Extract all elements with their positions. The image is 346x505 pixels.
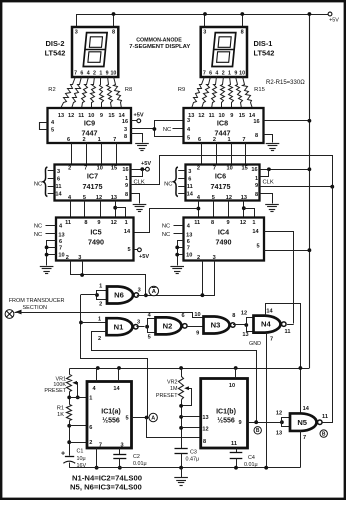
pin label N4 12 bbox=[241, 310, 247, 316]
svg-text:2: 2 bbox=[82, 137, 85, 143]
svg-text:N1-N4=IC2=74LS00: N1-N4=IC2=74LS00 bbox=[72, 474, 142, 483]
label R2 bbox=[48, 87, 55, 93]
IC IC9 7447 bbox=[48, 108, 132, 143]
junction N6 output node bbox=[144, 293, 148, 297]
svg-text:12: 12 bbox=[111, 220, 117, 226]
svg-text:16: 16 bbox=[122, 167, 128, 173]
wire IC8 pin16 to +5V rail bbox=[264, 120, 310, 122]
svg-text:COMMON-ANODE: COMMON-ANODE bbox=[136, 38, 182, 44]
wire N2 output to N3 pin9 bbox=[186, 326, 203, 328]
pin label N6 1 bbox=[99, 284, 102, 290]
pin labels IC1a top bbox=[92, 386, 120, 392]
node A-bar circled bbox=[149, 286, 159, 296]
svg-text:1: 1 bbox=[99, 70, 102, 76]
junction C3/bottom rail bbox=[179, 466, 183, 470]
svg-text:74175: 74175 bbox=[211, 182, 231, 191]
svg-text:+5V: +5V bbox=[139, 254, 149, 260]
svg-text:1: 1 bbox=[252, 220, 255, 226]
svg-text:1: 1 bbox=[125, 176, 128, 182]
wire IC7 pin9 CLK to N5 output net bbox=[131, 156, 333, 187]
junction IC5 pin7 bbox=[45, 246, 49, 250]
junction node B feedback bbox=[254, 420, 258, 424]
junction N5 inputs bbox=[280, 420, 284, 424]
pin labels IC1b left bbox=[202, 415, 208, 445]
pin label IC1b 11 bbox=[231, 441, 237, 447]
junction N6 inputs bbox=[95, 293, 99, 297]
wire IC1a pin2 bbox=[69, 442, 87, 444]
svg-text:10: 10 bbox=[97, 166, 103, 172]
svg-text:11: 11 bbox=[56, 184, 62, 190]
label common-anode display bbox=[129, 38, 190, 51]
pin label N5 12 bbox=[276, 411, 282, 417]
pin labels IC4 left bbox=[186, 224, 192, 259]
svg-text:14: 14 bbox=[55, 191, 62, 197]
svg-text:0.47μ: 0.47μ bbox=[186, 457, 200, 463]
svg-text:13: 13 bbox=[202, 415, 208, 421]
gate N3 bbox=[204, 317, 236, 334]
pin label N2 5 bbox=[148, 335, 151, 341]
svg-text:15: 15 bbox=[108, 113, 114, 119]
svg-text:12: 12 bbox=[240, 220, 246, 226]
svg-text:R15: R15 bbox=[254, 87, 265, 93]
svg-text:6: 6 bbox=[89, 425, 92, 431]
wire IC5 reset pins 2,3 bbox=[71, 261, 146, 296]
label NC IC6 bbox=[164, 181, 172, 187]
svg-text:10: 10 bbox=[194, 312, 200, 318]
wire IC1b pin11 to C4 bbox=[236, 448, 238, 453]
junction N4 pin7 rail bbox=[264, 466, 268, 470]
wire IC1a pin1 bbox=[69, 397, 87, 399]
svg-text:11: 11 bbox=[322, 414, 328, 420]
pin labels IC1a left bbox=[89, 396, 92, 447]
wire IC7 pin8 to ground bbox=[131, 194, 140, 204]
svg-text:N5: N5 bbox=[297, 418, 307, 427]
svg-text:6: 6 bbox=[181, 313, 184, 319]
svg-text:4: 4 bbox=[87, 70, 90, 76]
gate N5 bbox=[290, 413, 322, 431]
junction IC5 pin10 bbox=[45, 253, 49, 257]
ground IC9 pin8 bbox=[135, 144, 149, 151]
svg-text:2: 2 bbox=[222, 70, 225, 76]
wire IC5 pin1 jog bbox=[116, 208, 126, 218]
svg-text:12: 12 bbox=[226, 195, 232, 201]
ground IC8 pin8 bbox=[266, 144, 280, 151]
pin label N4 11 bbox=[285, 329, 291, 335]
svg-text:12: 12 bbox=[198, 113, 204, 119]
pin row labels DIS-2 bbox=[74, 70, 116, 76]
svg-text:LT542: LT542 bbox=[254, 49, 275, 58]
svg-text:7: 7 bbox=[113, 137, 116, 143]
svg-text:15: 15 bbox=[241, 166, 247, 172]
brace IC6 NC pins bbox=[174, 167, 178, 197]
ground IC6 pin8 bbox=[265, 205, 279, 212]
svg-text:+5V: +5V bbox=[133, 113, 143, 119]
svg-text:1K: 1K bbox=[57, 412, 64, 418]
pin labels IC9 right bbox=[122, 119, 128, 140]
IC IC8 7447 bbox=[184, 108, 264, 143]
junction C2/bottom rail bbox=[118, 466, 122, 470]
svg-text:+5V: +5V bbox=[141, 161, 151, 167]
svg-text:7: 7 bbox=[187, 245, 190, 251]
junction CLK net bbox=[330, 185, 334, 189]
svg-text:2: 2 bbox=[213, 137, 216, 143]
pin label IC4 5 bbox=[256, 244, 259, 250]
svg-text:9: 9 bbox=[230, 113, 233, 119]
capacitor C3 bbox=[175, 449, 188, 468]
wire IC6 pin9 CLK bbox=[260, 186, 333, 188]
junction VR1/R1/pin1 bbox=[67, 396, 71, 400]
svg-text:0.01μ: 0.01μ bbox=[133, 461, 147, 467]
svg-text:10: 10 bbox=[226, 166, 232, 172]
wire N3 output bbox=[233, 324, 246, 326]
svg-text:IC1(a): IC1(a) bbox=[101, 409, 120, 416]
gate N6 bbox=[107, 287, 139, 304]
svg-text:3: 3 bbox=[137, 319, 140, 325]
power terminal +5V top right bbox=[328, 12, 339, 23]
svg-text:9: 9 bbox=[97, 220, 100, 226]
pin label IC1b 9 bbox=[238, 420, 241, 426]
svg-text:10: 10 bbox=[239, 70, 245, 76]
svg-text:R8: R8 bbox=[125, 87, 132, 93]
wire node A to IC1b pin8 bbox=[147, 418, 201, 438]
label R9 bbox=[178, 87, 185, 93]
svg-text:1: 1 bbox=[255, 176, 258, 182]
svg-text:6: 6 bbox=[57, 176, 60, 182]
svg-text:7: 7 bbox=[203, 70, 206, 76]
svg-text:5: 5 bbox=[51, 128, 54, 134]
pin labels IC8 bottom bbox=[198, 137, 246, 143]
svg-text:4: 4 bbox=[215, 70, 218, 76]
svg-text:7: 7 bbox=[303, 435, 306, 441]
pin label IC1b 10 bbox=[229, 383, 235, 389]
svg-text:5: 5 bbox=[148, 335, 151, 341]
power terminal +5V IC7 bbox=[141, 161, 151, 171]
svg-text:6: 6 bbox=[59, 239, 62, 245]
junction rail/N4-N5 VCC bbox=[299, 366, 303, 370]
svg-text:8: 8 bbox=[241, 30, 244, 36]
potentiometer VR1 bbox=[67, 375, 78, 398]
wires IC1a pins 4,14 to rail bbox=[97, 368, 119, 382]
svg-text:GND: GND bbox=[249, 341, 261, 347]
svg-text:10: 10 bbox=[229, 383, 235, 389]
svg-text:1: 1 bbox=[227, 137, 230, 143]
gate N1 bbox=[107, 318, 139, 335]
svg-text:7490: 7490 bbox=[88, 238, 104, 247]
junction R1/IC1a pin6 bbox=[67, 424, 71, 428]
pin label N5 14 bbox=[303, 406, 310, 412]
resistor R1 bbox=[67, 405, 72, 421]
pin 8 label DIS-2 bbox=[112, 30, 115, 36]
pin labels IC9 bottom bbox=[67, 137, 116, 143]
svg-text:6: 6 bbox=[188, 176, 191, 182]
ground IC4 bbox=[170, 267, 184, 274]
capacitor C2 bbox=[113, 455, 126, 468]
pin label N2 4 bbox=[148, 313, 152, 319]
wire VR1 top bbox=[69, 369, 71, 375]
pin labels IC9 top bbox=[58, 113, 126, 119]
node A circled bbox=[149, 413, 157, 421]
capacitor C4 bbox=[230, 453, 243, 468]
svg-text:NC: NC bbox=[34, 181, 42, 187]
svg-text:6: 6 bbox=[67, 137, 70, 143]
svg-text:+5V: +5V bbox=[329, 18, 339, 24]
display DIS-2 LT542 bbox=[72, 27, 118, 77]
svg-text:3: 3 bbox=[203, 30, 206, 36]
bracket IC9 pins 4-5 bbox=[40, 123, 48, 130]
pin 3 label DIS-1 bbox=[203, 30, 206, 36]
wire DIS-2 pin8 riser bbox=[113, 14, 115, 27]
svg-text:6: 6 bbox=[209, 70, 212, 76]
wires IC8 to IC6 bbox=[202, 143, 246, 165]
svg-text:13: 13 bbox=[111, 195, 117, 201]
label R15 bbox=[254, 87, 265, 93]
svg-text:7-SEGMENT DISPLAY: 7-SEGMENT DISPLAY bbox=[129, 44, 190, 50]
wire N2 input tie bbox=[148, 319, 156, 333]
svg-text:11: 11 bbox=[209, 113, 215, 119]
svg-text:+: + bbox=[61, 450, 65, 457]
IC IC4 7490 bbox=[184, 218, 265, 261]
junction IC8 pin16 / rail bbox=[308, 119, 312, 123]
svg-text:2: 2 bbox=[99, 301, 102, 307]
wire +5V right vertical rail bbox=[309, 14, 311, 368]
wire node A to N6 inputs bbox=[81, 294, 97, 296]
pin labels IC6 top bbox=[197, 166, 248, 172]
svg-text:8: 8 bbox=[125, 192, 128, 198]
svg-text:5: 5 bbox=[127, 247, 130, 253]
svg-text:1M: 1M bbox=[170, 386, 178, 392]
wire IC8 pin8 to ground bbox=[264, 135, 273, 143]
wire VR1 bottom to R1 bbox=[69, 392, 71, 405]
ground IC5 bbox=[40, 267, 54, 274]
display DIS-1 LT542 bbox=[201, 27, 247, 77]
svg-text:12: 12 bbox=[276, 411, 282, 417]
svg-text:9: 9 bbox=[234, 70, 237, 76]
svg-text:13: 13 bbox=[186, 233, 192, 239]
svg-text:3: 3 bbox=[57, 169, 60, 175]
svg-text:8: 8 bbox=[255, 192, 258, 198]
junction rail/IC1b pin10 bbox=[234, 366, 238, 370]
junction node A / N1 pin1 bbox=[79, 321, 83, 325]
wire DIS-1 pin8 riser bbox=[242, 14, 244, 27]
pin label N4 7 bbox=[270, 337, 273, 343]
junction VR2 wiper return bbox=[179, 404, 183, 408]
svg-text:8: 8 bbox=[112, 30, 115, 36]
svg-text:PRESET: PRESET bbox=[156, 393, 178, 399]
wire IC4 pin1 jog bbox=[244, 209, 255, 218]
svg-text:7: 7 bbox=[84, 166, 87, 172]
wire IC9 pin8 to ground bbox=[131, 134, 143, 143]
pin label N6 2 bbox=[99, 301, 102, 307]
svg-text:14: 14 bbox=[303, 406, 310, 412]
pin labels IC8 left bbox=[187, 118, 191, 142]
svg-text:12: 12 bbox=[96, 195, 102, 201]
svg-text:IC1(b): IC1(b) bbox=[216, 409, 236, 416]
pin row labels DIS-1 bbox=[203, 70, 245, 76]
junction IC4 pin7 bbox=[175, 246, 179, 250]
svg-text:1: 1 bbox=[99, 284, 102, 290]
svg-text:8: 8 bbox=[255, 133, 258, 139]
junction rail/IC1a pin14 bbox=[117, 366, 121, 370]
pin label N4 13 bbox=[242, 332, 248, 338]
svg-text:11: 11 bbox=[194, 220, 200, 226]
resistor network R9-R15 bbox=[192, 77, 253, 109]
svg-text:A: A bbox=[151, 415, 155, 421]
wire N5 input tie bbox=[282, 418, 291, 427]
wire N6 input tie bbox=[97, 291, 107, 300]
svg-text:½556: ½556 bbox=[217, 417, 235, 425]
svg-text:12: 12 bbox=[202, 427, 208, 433]
pin labels IC7 left bbox=[55, 169, 62, 198]
svg-text:2: 2 bbox=[197, 166, 200, 172]
pin label N5 13 bbox=[276, 431, 282, 437]
IC IC1(b) 556 bbox=[201, 379, 248, 449]
pin labels IC7 bottom bbox=[68, 195, 117, 201]
wire IC6 pin16 to +5V rail bbox=[260, 169, 310, 171]
svg-text:14: 14 bbox=[187, 191, 194, 197]
svg-text:7: 7 bbox=[59, 245, 62, 251]
svg-text:R2-R15=330Ω: R2-R15=330Ω bbox=[266, 80, 305, 86]
wire node A vertical bbox=[81, 295, 148, 418]
label NC IC7 bbox=[34, 181, 42, 187]
junction IC4 pin5 / rail bbox=[308, 248, 312, 252]
svg-text:VR2: VR2 bbox=[167, 379, 178, 385]
svg-text:12: 12 bbox=[68, 113, 74, 119]
svg-text:7: 7 bbox=[213, 166, 216, 172]
svg-text:12: 12 bbox=[241, 310, 247, 316]
svg-text:R1: R1 bbox=[57, 406, 64, 412]
pin labels IC4 bottom bbox=[197, 255, 216, 261]
svg-text:7: 7 bbox=[74, 70, 77, 76]
svg-text:B: B bbox=[322, 431, 326, 437]
pin label N6 3 bbox=[138, 287, 141, 293]
wire IC4 pin14 clock from N4 bbox=[265, 232, 294, 324]
pin label IC8 right 8 bbox=[255, 133, 258, 139]
wire IC5 pin14 to IC4 QD bbox=[134, 209, 199, 233]
label NC IC4 pin13 bbox=[162, 232, 184, 238]
wire R1 bottom bbox=[69, 421, 71, 456]
svg-text:0.01μ: 0.01μ bbox=[244, 462, 258, 468]
wire IC1a pin6 bbox=[69, 425, 87, 427]
svg-text:2: 2 bbox=[66, 255, 69, 261]
wire +5V top rail bbox=[77, 14, 331, 16]
junction IC6 pin16 / rail bbox=[308, 167, 312, 171]
svg-text:13: 13 bbox=[58, 113, 64, 119]
label NC IC8 pin4 bbox=[163, 127, 184, 133]
svg-text:1: 1 bbox=[98, 137, 101, 143]
svg-text:R2: R2 bbox=[48, 87, 55, 93]
pin labels IC7 right bbox=[122, 167, 128, 198]
svg-text:IC9: IC9 bbox=[84, 119, 95, 128]
pin label IC1a 5 bbox=[125, 416, 128, 422]
wire IC6 pin1 tie high bbox=[260, 170, 269, 177]
brace IC7 NC pins bbox=[43, 167, 47, 197]
svg-text:11: 11 bbox=[78, 113, 84, 119]
svg-text:PRESET: PRESET bbox=[44, 388, 66, 394]
wire VR2 bottom chain bbox=[181, 400, 183, 449]
svg-text:NC: NC bbox=[34, 224, 42, 230]
label C4 bbox=[244, 455, 258, 468]
arrow transducer bbox=[15, 310, 22, 315]
wire IC1b pin13 bbox=[181, 416, 201, 418]
svg-text:16: 16 bbox=[253, 119, 259, 125]
wire IC1a pin5 node A bbox=[132, 417, 147, 419]
svg-text:14: 14 bbox=[252, 229, 259, 235]
wire +5V rail 556 section bbox=[70, 368, 310, 370]
junction IC1b pin13 bbox=[179, 415, 183, 419]
svg-text:16: 16 bbox=[251, 167, 257, 173]
svg-text:3: 3 bbox=[124, 127, 127, 133]
label C3 bbox=[186, 450, 200, 463]
svg-text:5: 5 bbox=[125, 416, 128, 422]
junction IC4 pin2 reset bbox=[201, 293, 205, 297]
junction IC7 pin13 branch bbox=[113, 206, 117, 210]
wire N6 output bbox=[137, 295, 146, 297]
wire IC4 reset pins 2,3 bbox=[146, 261, 215, 296]
pin 3 label DIS-2 bbox=[75, 30, 78, 36]
label from transducer bbox=[9, 298, 65, 311]
capacitor C1 bbox=[61, 450, 75, 467]
IC IC6 74175 bbox=[186, 165, 260, 201]
NC stubs IC6 left bbox=[178, 171, 185, 194]
svg-text:9: 9 bbox=[106, 70, 109, 76]
svg-text:8: 8 bbox=[211, 220, 214, 226]
wire IC9 pin3 to IC8 pins 3,5 bbox=[131, 121, 184, 137]
label VR1 bbox=[44, 377, 66, 394]
junction rail/IC1a pin4 bbox=[96, 366, 100, 370]
wire IC4 pin5 to +5V rail bbox=[264, 250, 309, 252]
power terminal +5V IC5 bbox=[138, 248, 150, 260]
svg-text:9: 9 bbox=[100, 113, 103, 119]
potentiometer VR2 bbox=[179, 368, 192, 406]
svg-text:B: B bbox=[256, 428, 260, 434]
wire N4 output to IC4 clock bbox=[287, 324, 294, 326]
svg-text:SECTION: SECTION bbox=[23, 305, 47, 311]
svg-text:7490: 7490 bbox=[216, 238, 232, 247]
svg-text:FROM TRANSDUCER: FROM TRANSDUCER bbox=[9, 298, 65, 304]
svg-text:N5, N6=IC3=74LS00: N5, N6=IC3=74LS00 bbox=[70, 482, 142, 491]
svg-text:3: 3 bbox=[78, 255, 81, 261]
label NC IC5 pin13 bbox=[34, 232, 56, 238]
svg-text:NC: NC bbox=[162, 224, 170, 230]
pin label IC4 14 bbox=[252, 229, 259, 235]
gate N2 bbox=[156, 317, 188, 334]
label GND N4 bbox=[249, 341, 261, 347]
junction node A bbox=[145, 416, 149, 420]
svg-text:5: 5 bbox=[187, 136, 190, 142]
svg-text:3: 3 bbox=[120, 443, 123, 449]
wire IC1b pin10 to rail bbox=[235, 368, 237, 379]
label C2 bbox=[133, 454, 147, 467]
svg-text:5: 5 bbox=[256, 244, 259, 250]
svg-text:NC: NC bbox=[163, 127, 171, 133]
wire DIS-1 pin3 riser bbox=[204, 14, 206, 27]
svg-text:NC: NC bbox=[162, 232, 170, 238]
junction IC9 pin3 node bbox=[153, 127, 157, 131]
terminal X transducer bbox=[5, 310, 14, 319]
svg-text:LT542: LT542 bbox=[45, 49, 66, 58]
svg-text:9: 9 bbox=[238, 420, 241, 426]
node B circled left bbox=[254, 427, 261, 435]
IC IC1(a) 556 bbox=[87, 382, 132, 449]
junction IC5 pin3 reset bbox=[80, 273, 84, 277]
svg-text:9: 9 bbox=[196, 331, 199, 337]
junction N1 output bbox=[145, 325, 149, 329]
svg-text:16: 16 bbox=[122, 119, 128, 125]
svg-text:CLK: CLK bbox=[263, 179, 274, 185]
pin labels IC6 bottom bbox=[197, 195, 247, 201]
pin label N2 6 bbox=[181, 313, 184, 319]
junction N3 output bbox=[244, 323, 248, 327]
